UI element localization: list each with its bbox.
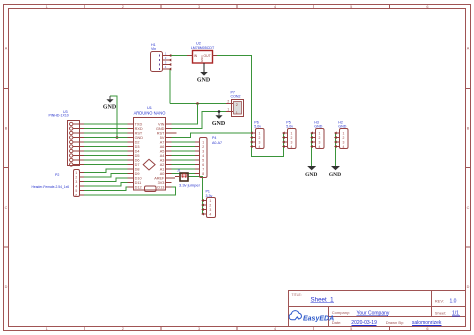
svg-text:D6: D6 [135,159,140,163]
svg-text:D: D [5,285,8,289]
svg-text:1: 1 [227,108,229,112]
svg-text:PINHD-1X10: PINHD-1X10 [49,114,69,118]
wire H2 GND bus [335,133,337,166]
svg-text:3V3: 3V3 [158,181,165,185]
svg-text:3.3v jumper: 3.3v jumper [179,183,201,188]
svg-text:3: 3 [209,208,211,212]
svg-text:6: 6 [426,327,428,331]
svg-text:ARDUINO NANO: ARDUINO NANO [134,110,166,115]
svg-text:1: 1 [236,111,238,115]
ground flag under H2 [329,166,341,178]
ground flag near U1 top-left [103,96,117,111]
svg-text:GND: GND [197,78,211,84]
connector P4 A0-A7 [195,136,222,177]
svg-text:D7: D7 [135,163,140,167]
svg-text:D3: D3 [135,145,140,149]
svg-text:EasyEDA: EasyEDA [303,315,334,322]
svg-text:D4: D4 [135,150,140,154]
jumper J1 3.3v [175,169,200,188]
svg-text:P2: P2 [55,173,59,177]
junction on U3-GND wire [116,136,119,139]
svg-text:A0-A7: A0-A7 [212,141,222,145]
svg-text:D: D [467,285,470,289]
svg-text:3: 3 [342,140,344,144]
svg-text:3: 3 [318,140,320,144]
svg-text:TITLE:: TITLE: [292,293,302,297]
svg-text:Vin: Vin [151,47,156,51]
svg-text:LM78M05CDT: LM78M05CDT [191,46,215,50]
svg-text:A2: A2 [160,163,165,167]
svg-text:1: 1 [318,131,320,135]
junction VIN net [196,102,199,105]
svg-text:1.0: 1.0 [450,298,457,304]
svg-text:2: 2 [209,203,211,207]
connector H1 (Vin jack) [151,43,172,72]
connector P2 Header-Female 1x6 [32,170,85,198]
svg-text:GND: GND [305,172,317,178]
svg-text:5: 5 [350,5,352,9]
svg-text:1: 1 [258,131,260,135]
wire U1 5V to P6 bus [172,133,252,138]
svg-text:8: 8 [202,172,204,176]
junction GND at P7 wire [218,110,221,113]
wire H1 pin1 to U2 IN [170,55,187,57]
wire P2 pin4 to D11 [84,183,127,187]
svg-text:2: 2 [258,136,260,140]
svg-text:A: A [5,47,8,51]
svg-text:GND: GND [314,125,322,129]
ground flag at P7 pin1 [212,112,226,128]
svg-text:5: 5 [75,189,77,193]
connector H2 GND [334,120,348,149]
connector H3 GND [310,120,324,149]
mcu U1 ARDUINO NANO [127,105,176,191]
svg-text:Drawn By:: Drawn By: [386,320,404,325]
wire VIN branch down to U1 VIN pin [172,104,198,125]
svg-text:2: 2 [342,136,344,140]
svg-text:D13: D13 [157,186,164,190]
svg-text:1: 1 [75,171,77,175]
svg-text:GND: GND [200,55,204,63]
svg-text:IN: IN [194,54,198,58]
svg-text:D5: D5 [135,154,140,158]
svg-text:2: 2 [318,136,320,140]
connector P5 5.0v [282,120,296,149]
svg-text:2: 2 [122,327,124,331]
svg-text:3: 3 [198,327,200,331]
svg-text:GND: GND [212,121,226,127]
svg-text:J1: J1 [177,169,181,173]
svg-text:4: 4 [209,212,211,216]
svg-text:P4: P4 [212,136,216,140]
svg-text:4: 4 [290,145,292,149]
svg-text:5: 5 [350,327,352,331]
svg-text:3: 3 [75,180,77,184]
svg-text:A3: A3 [160,159,165,163]
regulator U2 LM78M05 [187,42,217,73]
svg-text:GND: GND [338,125,346,129]
wire P2 pin1 to D8 [84,169,127,173]
svg-text:D8: D8 [135,168,140,172]
svg-text:D12: D12 [135,186,142,190]
ground flag under U2 [197,63,211,84]
svg-text:A0: A0 [160,172,165,176]
svg-text:D11: D11 [135,181,142,185]
svg-text:3: 3 [198,5,200,9]
svg-text:C: C [467,206,470,210]
svg-text:D2: D2 [135,141,140,145]
svg-text:5.0v: 5.0v [254,125,261,129]
svg-text:3: 3 [258,140,260,144]
connector P6 5.0v [250,120,264,149]
svg-text:A4: A4 [160,154,165,158]
wire P2 pin5 to D12 [84,187,127,191]
svg-text:6: 6 [426,5,428,9]
svg-text:3: 3 [290,140,292,144]
svg-text:6: 6 [202,163,204,167]
svg-text:Company:: Company: [332,310,350,315]
svg-text:2: 2 [122,5,124,9]
svg-text:A1: A1 [160,168,165,172]
svg-text:OUT: OUT [204,54,211,58]
svg-text:TXD: TXD [135,123,143,127]
svg-text:4: 4 [274,5,276,9]
svg-text:1: 1 [342,131,344,135]
svg-text:A: A [467,47,470,51]
svg-text:2: 2 [75,175,77,179]
svg-text:C: C [5,206,8,210]
svg-text:A5: A5 [160,150,165,154]
svg-text:Sheet_1: Sheet_1 [311,296,335,303]
svg-text:D9: D9 [135,172,140,176]
svg-text:GND: GND [135,136,144,140]
svg-text:2: 2 [236,103,238,107]
svg-text:4: 4 [274,327,276,331]
svg-text:1: 1 [46,327,48,331]
svg-text:RST: RST [135,132,143,136]
svg-text:GND: GND [156,127,165,131]
svg-text:GND: GND [329,172,341,178]
wire VIN net horizontal to P7 pin2 [170,103,226,105]
connector U3 PINHD-1X10 [49,110,85,166]
wires U3 to U1 left pins [84,124,127,165]
wire P2 pin6 to D13 [84,187,176,195]
svg-text:4: 4 [342,145,344,149]
wire U1 GND right pin to P7 pin1 [172,112,227,129]
svg-text:B: B [467,126,470,130]
wire GND flag to U1 GND left pin [110,96,117,138]
svg-text:RXD: RXD [135,127,143,131]
svg-text:4: 4 [258,145,260,149]
svg-text:Sheet:: Sheet: [435,310,447,315]
svg-text:VIN: VIN [158,123,165,127]
connector P7 CON2 [226,91,244,117]
svg-text:4: 4 [202,154,204,158]
wire P2 pin3 to D10 [84,178,127,182]
svg-text:1: 1 [202,140,204,144]
svg-text:AREF: AREF [154,177,165,181]
svg-text:CON2: CON2 [231,95,241,99]
svg-text:2: 2 [202,145,204,149]
svg-text:1: 1 [209,199,211,203]
svg-text:4: 4 [318,145,320,149]
svg-text:2: 2 [290,136,292,140]
svg-text:A6: A6 [160,145,165,149]
svg-text:B: B [5,126,8,130]
svg-text:5.0v: 5.0v [286,125,293,129]
connector P1 3.3v [201,189,215,217]
ground flag under H3 [305,166,317,178]
svg-text:7: 7 [202,167,204,171]
svg-text:5V: 5V [160,136,165,140]
svg-text:6: 6 [75,193,77,197]
svg-text:Header-Female-2.54_1x6: Header-Female-2.54_1x6 [32,185,70,189]
svg-text:1: 1 [46,5,48,9]
svg-text:5: 5 [202,158,204,162]
svg-text:GND: GND [103,105,117,111]
wire H3 GND bus [311,133,313,166]
svg-text:3: 3 [202,149,204,153]
svg-text:D10: D10 [135,177,142,181]
svg-text:P1: P1 [206,189,210,193]
wire H1 pin4 down to VIN net [169,69,171,104]
wire J1 to P1 3.3v bus [189,177,203,215]
svg-text:A7: A7 [160,141,165,145]
svg-text:1: 1 [290,131,292,135]
svg-text:4: 4 [75,184,77,188]
wires U1 A7-A0 to P4 pins [172,142,195,174]
wire P2 pin2 to D9 [84,174,127,178]
wire U2 OUT to P6/P5 5V bus [217,56,284,157]
svg-text:REV:: REV: [435,298,444,303]
svg-text:RST: RST [157,132,165,136]
svg-text:2: 2 [227,100,229,104]
